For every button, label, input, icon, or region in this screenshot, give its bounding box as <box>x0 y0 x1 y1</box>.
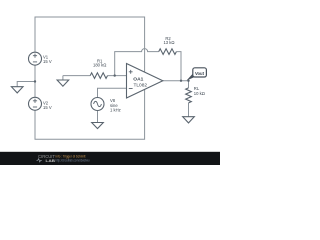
svg-text:LAB: LAB <box>46 158 56 163</box>
svg-text:OA1: OA1 <box>133 77 144 82</box>
svg-text:http://circuitlab.com/c6wsfwu: http://circuitlab.com/c6wsfwu <box>56 159 90 163</box>
svg-text:15 V: 15 V <box>43 105 52 110</box>
svg-text:1 kHz: 1 kHz <box>110 108 121 113</box>
svg-text:180 kΩ: 180 kΩ <box>93 63 106 68</box>
svg-text:13 kΩ: 13 kΩ <box>163 40 174 45</box>
svg-text:TL082: TL082 <box>134 82 148 87</box>
svg-text:Vout: Vout <box>195 71 205 76</box>
svg-text:15 V: 15 V <box>43 59 52 64</box>
svg-text:10 kΩ: 10 kΩ <box>194 91 205 96</box>
